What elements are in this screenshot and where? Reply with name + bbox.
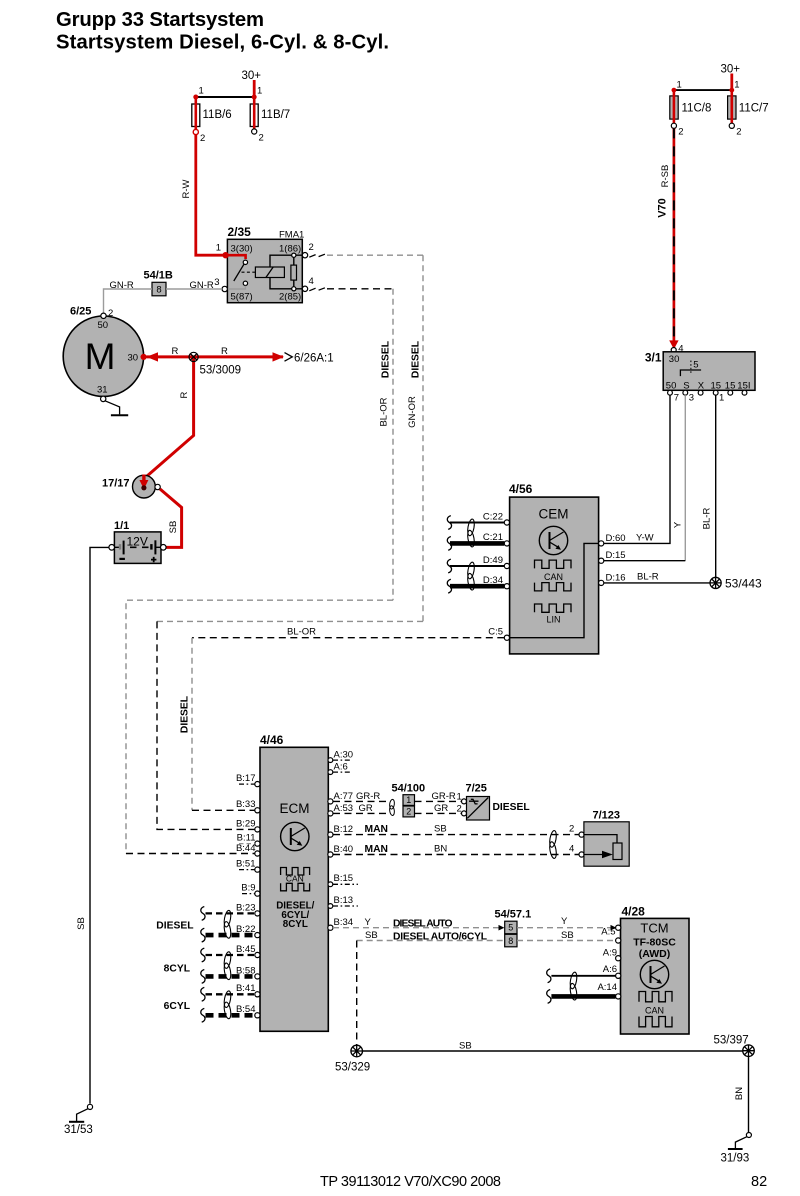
ECM pin B:58: [255, 974, 260, 979]
svg-text:1: 1: [199, 86, 204, 97]
wire CAN-H to D:49: [450, 565, 504, 567]
svg-text:DIESEL AUTO/6CYL: DIESEL AUTO/6CYL: [393, 931, 487, 942]
wire R-SB V70 variant fuse 11C/8 to ignition switch: [673, 128, 676, 342]
wire SB riser to splice 53/329: [356, 941, 358, 1046]
battery pin plus: [161, 545, 167, 551]
TCM pin A:6: [616, 973, 621, 978]
relay pin 3: [222, 286, 227, 291]
pin 2 of fuse 11B/6: [193, 129, 198, 134]
svg-text:2: 2: [259, 133, 264, 144]
ignition switch symbol: [680, 370, 701, 376]
ECM pin B:33: [255, 808, 260, 813]
CEM pin D:60: [599, 541, 604, 546]
TCM transistor symbol: [640, 960, 668, 988]
svg-text:CAN: CAN: [286, 873, 304, 883]
wire horizontal run to ECM B:44: [126, 600, 393, 853]
ECM pin B:23: [255, 911, 260, 916]
svg-text:3: 3: [689, 393, 694, 404]
wire BL-R ignition 15 to splice 53/443: [715, 395, 717, 577]
wire horizontal run to ECM B:29: [157, 620, 423, 622]
wire BN ECM B:40 to 7/123 pin 4 (MAN): [333, 854, 579, 856]
svg-text:3/1: 3/1: [645, 351, 662, 365]
svg-text:B:41: B:41: [236, 983, 256, 994]
svg-text:TCM: TCM: [640, 921, 668, 936]
svg-text:7/123: 7/123: [593, 810, 621, 822]
svg-text:B:29: B:29: [236, 818, 256, 829]
svg-text:CEM: CEM: [539, 507, 569, 522]
svg-text:5: 5: [693, 360, 698, 371]
wire CAN-L to D:34 (thick): [450, 584, 504, 589]
CEM pin C:21: [504, 541, 509, 546]
svg-text:GN-R: GN-R: [190, 280, 214, 291]
svg-text:2: 2: [406, 807, 411, 817]
svg-text:1: 1: [719, 393, 724, 404]
svg-text:1/1: 1/1: [114, 520, 129, 532]
CEM pin C:22: [504, 520, 509, 525]
CEM CAN symbol: [535, 560, 572, 568]
svg-text:31/53: 31/53: [64, 1124, 93, 1136]
svg-text:B:17: B:17: [236, 773, 256, 784]
motor pin 30: [141, 354, 146, 359]
svg-text:DIESEL AUTO: DIESEL AUTO: [393, 919, 453, 930]
svg-text:54/100: 54/100: [392, 783, 426, 795]
svg-text:2: 2: [108, 308, 113, 319]
svg-text:CAN: CAN: [544, 572, 563, 582]
ECM pin A:6: [328, 770, 333, 775]
svg-text:SB: SB: [365, 930, 378, 941]
CEM pin D:34: [504, 584, 509, 589]
relay pin 2: [302, 253, 307, 258]
relay pin 4: [302, 286, 307, 291]
wire BN splice 53/397 to ground 31/93: [748, 1057, 750, 1133]
fuse 11C/7: [728, 96, 736, 119]
svg-text:B:23: B:23: [236, 902, 256, 913]
wire relay pin 2 to GN-OR riser: [309, 254, 325, 257]
svg-text:R: R: [179, 391, 190, 398]
svg-text:8CYL: 8CYL: [164, 964, 190, 975]
TCM pin A:14: [616, 994, 621, 999]
ground 31/93: [746, 1133, 751, 1138]
TCM pin A:9: [616, 956, 621, 961]
fuse 11B/7: [250, 104, 258, 127]
ECM pin A:77: [328, 799, 333, 804]
svg-text:R: R: [172, 346, 179, 357]
svg-text:30: 30: [669, 354, 680, 365]
svg-text:5: 5: [508, 923, 513, 933]
svg-text:D:15: D:15: [606, 550, 626, 561]
svg-text:DIESEL: DIESEL: [180, 696, 191, 733]
wire BL-OR CEM C:5 to ECM B:33: [192, 637, 504, 639]
svg-text:A:14: A:14: [597, 982, 617, 993]
ECM pin B:54: [255, 1013, 260, 1018]
svg-text:DIESEL: DIESEL: [411, 341, 422, 378]
svg-text:R-SB: R-SB: [660, 165, 671, 188]
svg-text:B:12: B:12: [334, 824, 354, 835]
twisted pair symbol A:6/A:14: [569, 972, 578, 990]
svg-text:2(85): 2(85): [279, 292, 301, 303]
wire SB ECM B:12 to 7/123 pin 2 (MAN): [333, 834, 579, 836]
wire CAN-H to TCM A:6: [551, 975, 615, 977]
svg-text:R-W: R-W: [181, 179, 192, 198]
ground at motor: [105, 401, 120, 415]
wire SB 54/57.1 to TCM A:5: [517, 940, 616, 942]
svg-text:6/26A:1: 6/26A:1: [294, 353, 334, 365]
svg-text:D:60: D:60: [606, 533, 626, 544]
svg-text:DIESEL: DIESEL: [381, 341, 392, 378]
svg-text:4/56: 4/56: [509, 482, 533, 496]
junction dot right: [252, 95, 257, 100]
svg-text:B:45: B:45: [236, 944, 256, 955]
svg-text:11B/7: 11B/7: [261, 109, 290, 121]
svg-text:GR: GR: [359, 803, 373, 814]
svg-text:LIN: LIN: [546, 614, 560, 624]
svg-text:17/17: 17/17: [102, 478, 130, 490]
svg-text:1: 1: [734, 80, 739, 91]
TCM CAN symbol: [639, 992, 672, 1002]
svg-text:DIESEL: DIESEL: [156, 920, 193, 931]
ECM pin B:40: [328, 852, 333, 857]
svg-text:B:44: B:44: [236, 843, 256, 854]
wire R motor 30 to 6/26A:1: [147, 355, 284, 358]
svg-text:11C/8: 11C/8: [682, 103, 712, 115]
svg-text:D:16: D:16: [606, 572, 626, 583]
svg-text:CAN: CAN: [645, 1005, 664, 1015]
wire pair 8CYL B:45/B:58: [206, 954, 256, 956]
relay pin 1: [223, 253, 228, 258]
svg-text:SB: SB: [561, 930, 574, 941]
svg-text:SB: SB: [434, 824, 447, 835]
svg-text:50: 50: [666, 380, 677, 391]
CEM LIN symbol: [535, 604, 572, 612]
ignition bottom pins: [668, 390, 673, 395]
svg-text:D:49: D:49: [483, 555, 503, 566]
svg-text:4/46: 4/46: [260, 733, 284, 747]
twisted pair symbol SB/BN: [549, 830, 558, 848]
CEM pin D:16: [599, 580, 604, 585]
svg-text:1: 1: [406, 795, 411, 805]
svg-text:DIESEL: DIESEL: [493, 802, 530, 813]
wire BL-OR riser (DIESEL): [392, 289, 394, 600]
splice 53/397: [743, 1045, 755, 1057]
svg-text:7: 7: [674, 393, 679, 404]
wire pair 6CYL B:41/B:54: [206, 993, 256, 995]
svg-text:6/25: 6/25: [70, 306, 91, 318]
svg-text:3: 3: [214, 277, 219, 288]
ECM pin A:30: [328, 758, 333, 763]
ECM pin B:9: [255, 891, 260, 896]
svg-text:31: 31: [97, 385, 108, 396]
ECM pin B:41: [255, 992, 260, 997]
svg-text:SB: SB: [459, 1040, 472, 1051]
svg-text:2/35: 2/35: [228, 225, 252, 239]
svg-text:GN-OR: GN-OR: [407, 396, 418, 428]
svg-text:30+: 30+: [721, 64, 741, 76]
ECM pin B:22: [255, 933, 260, 938]
svg-text:8CYL: 8CYL: [283, 919, 308, 930]
svg-text:2: 2: [200, 133, 205, 144]
wire GR-R ECM A:77 to 54/100: [333, 800, 388, 802]
svg-text:11C/7: 11C/7: [739, 103, 769, 115]
svg-text:B:13: B:13: [334, 895, 354, 906]
svg-text:B:51: B:51: [236, 859, 256, 870]
svg-text:82: 82: [751, 1174, 767, 1190]
wire CAN-L to TCM A:14 (thick): [551, 994, 615, 999]
splice 53/3009: [189, 352, 198, 361]
ECM transistor symbol: [281, 822, 309, 850]
svg-text:C:5: C:5: [488, 627, 503, 638]
svg-text:11B/6: 11B/6: [203, 109, 232, 121]
relay internal wiring: [270, 255, 302, 289]
svg-text:2: 2: [736, 127, 741, 138]
svg-text:2: 2: [569, 824, 574, 835]
wire Y ECM B:34 to 54/57.1 (DIESEL AUTO): [333, 927, 499, 929]
pin 2 of fuse 11C/8: [671, 123, 676, 128]
svg-text:4/28: 4/28: [622, 905, 646, 919]
svg-text:(AWD): (AWD): [639, 948, 671, 960]
wire fuse rail horizontal right: [674, 89, 732, 91]
svg-text:A:77: A:77: [334, 791, 354, 802]
svg-text:7/25: 7/25: [466, 783, 487, 795]
battery pin minus: [109, 545, 115, 551]
wire BL-R CEM D:16 to splice 53/443: [604, 582, 710, 584]
ignition pin 4: [671, 348, 676, 353]
svg-text:Y: Y: [365, 917, 372, 928]
svg-text:TP 39113012 V70/XC90 2008: TP 39113012 V70/XC90 2008: [320, 1174, 501, 1190]
svg-text:1: 1: [257, 86, 262, 97]
CEM transistor symbol: [539, 526, 567, 554]
svg-text:BN: BN: [434, 844, 447, 855]
svg-text:15I: 15I: [737, 380, 750, 391]
splice 53/443: [710, 577, 721, 588]
splice 53/329: [351, 1045, 363, 1057]
svg-text:1: 1: [216, 243, 221, 254]
twisted pair symbol at 54/100: [389, 799, 395, 809]
relay coil: [255, 267, 284, 278]
wire GR 54/100 to 7/25 pin 2: [415, 812, 462, 814]
svg-text:A:6: A:6: [603, 964, 617, 975]
CEM pin D:15: [599, 558, 604, 563]
svg-text:ECM: ECM: [280, 801, 310, 816]
svg-text:GR-R: GR-R: [356, 791, 380, 802]
svg-text:BL-OR: BL-OR: [379, 397, 390, 426]
svg-text:MAN: MAN: [365, 844, 388, 855]
wire GN-R motor to 54/1B: [104, 289, 153, 316]
ECM pin B:13: [328, 904, 333, 909]
wire GN-OR riser (DIESEL): [422, 255, 424, 621]
svg-text:Startsystem Diesel, 6-Cyl. & 8: Startsystem Diesel, 6-Cyl. & 8-Cyl.: [56, 32, 389, 54]
ECM pin A:53: [328, 811, 333, 816]
svg-text:BN: BN: [734, 1087, 745, 1100]
wire 30+ down to fuse rail: [253, 80, 256, 97]
svg-text:A:6: A:6: [334, 762, 348, 773]
ECM pin B:34: [328, 925, 333, 930]
svg-text:53/329: 53/329: [335, 1062, 370, 1074]
svg-text:1: 1: [677, 80, 682, 91]
motor pin 31: [101, 396, 106, 401]
wire R-W fuse 11B/6 to relay pin 1: [196, 135, 225, 256]
svg-text:12V: 12V: [127, 535, 148, 549]
svg-text:Y-W: Y-W: [636, 533, 654, 544]
ECM pin B:29: [255, 827, 260, 832]
wire fuse rail horizontal: [196, 96, 254, 98]
ECM pin B:12: [328, 832, 333, 837]
ECM pin B:17: [255, 782, 260, 787]
svg-text:BL-R: BL-R: [637, 572, 659, 583]
svg-text:SB: SB: [168, 521, 179, 534]
svg-text:X: X: [698, 380, 705, 391]
svg-text:15: 15: [725, 380, 736, 391]
wire pair DIESEL B:23/B:22: [206, 912, 256, 914]
wire Y 54/57.1 to TCM: [517, 927, 611, 929]
pin 2 of fuse 11C/7: [729, 123, 734, 128]
svg-text:3(30): 3(30): [231, 244, 253, 255]
svg-text:Grupp 33 Startsystem: Grupp 33 Startsystem: [56, 9, 264, 31]
svg-text:B:33: B:33: [236, 799, 256, 810]
svg-text:C:22: C:22: [483, 511, 503, 522]
svg-text:4: 4: [309, 276, 314, 287]
wire CAN-H to C:22: [450, 522, 504, 524]
svg-text:BL-R: BL-R: [702, 508, 713, 530]
svg-text:A:30: A:30: [334, 750, 354, 761]
svg-text:SB: SB: [76, 917, 87, 930]
svg-text:15: 15: [711, 380, 722, 391]
svg-text:8: 8: [508, 936, 513, 946]
svg-text:30+: 30+: [242, 70, 262, 82]
svg-text:30: 30: [128, 353, 139, 364]
svg-text:53/397: 53/397: [714, 1035, 749, 1047]
svg-text:53/3009: 53/3009: [200, 365, 242, 377]
wire GN-R 54/1B to relay pin 3: [166, 288, 222, 290]
svg-text:31/93: 31/93: [721, 1153, 750, 1165]
wire SB to 54/57.1 (DIESEL AUTO/6CYL): [357, 940, 505, 942]
junction dot left: [193, 95, 198, 100]
svg-text:Y: Y: [673, 521, 684, 528]
svg-text:S: S: [683, 380, 689, 391]
ECM CAN symbol: [281, 868, 310, 876]
TCM pin (DIESEL AUTO): [616, 925, 621, 930]
relay internal switch: [227, 255, 245, 259]
ECM pin B:11: [255, 841, 260, 846]
wire SB splice 53/329 to 53/397: [363, 1050, 743, 1052]
twisted pair symbol D:49/D:34: [467, 562, 476, 580]
wire relay pin 4 to BL-OR riser: [309, 288, 325, 291]
svg-text:54/57.1: 54/57.1: [495, 909, 532, 921]
wire 30+ down: [730, 74, 733, 91]
svg-text:2: 2: [309, 242, 314, 253]
svg-text:B:15: B:15: [334, 873, 354, 884]
wire GR-R 54/100 to 7/25 pin 1: [415, 800, 462, 802]
svg-text:A:9: A:9: [603, 948, 617, 959]
svg-text:1(86): 1(86): [279, 244, 301, 255]
ground 31/53: [87, 1104, 92, 1109]
TCM pin A:5: [616, 938, 621, 943]
ECM pin B:51: [255, 867, 260, 872]
ECM pin B:44: [255, 851, 260, 856]
pin 2 of fuse 11B/7: [252, 129, 257, 134]
svg-text:54/1B: 54/1B: [144, 270, 173, 282]
svg-text:B:9: B:9: [241, 883, 255, 894]
fuse 11B/6: [192, 104, 200, 127]
ECM pin B:45: [255, 952, 260, 957]
svg-text:GN-R: GN-R: [110, 280, 134, 291]
svg-text:8: 8: [156, 285, 161, 296]
fuse 11C/8: [670, 96, 678, 119]
svg-text:2: 2: [678, 127, 683, 138]
wire GR ECM A:53 to 54/100: [333, 812, 388, 814]
svg-text:B:40: B:40: [334, 844, 354, 855]
svg-text:6CYL: 6CYL: [164, 1001, 190, 1012]
svg-text:MAN: MAN: [365, 824, 388, 835]
svg-text:M: M: [85, 336, 116, 377]
wire SB 17/17 to battery: [160, 489, 182, 547]
wire Y ignition S to CEM D:15: [684, 395, 686, 561]
wire SB battery minus to ground: [90, 547, 109, 1103]
svg-text:Y: Y: [561, 916, 568, 927]
svg-text:GR: GR: [434, 803, 448, 814]
CEM pin C:5: [504, 635, 509, 640]
svg-text:4: 4: [569, 844, 574, 855]
wire Y-W ignition 50 to CEM D:60: [604, 395, 670, 543]
CEM pin D:49: [504, 563, 509, 568]
svg-text:V70: V70: [657, 198, 669, 218]
svg-text:TF-80SC: TF-80SC: [633, 937, 676, 949]
svg-text:53/443: 53/443: [725, 577, 762, 591]
svg-text:B:34: B:34: [334, 917, 354, 928]
svg-text:A:5: A:5: [601, 927, 615, 938]
svg-text:R: R: [221, 346, 228, 357]
twisted pair symbol C:22/C:21: [467, 519, 476, 537]
svg-text:50: 50: [98, 320, 109, 331]
CEM internal wire D:60 to C:5: [507, 543, 600, 637]
wire CAN-L to C:21 (thick): [450, 541, 504, 546]
relay internal resistor: [293, 255, 295, 289]
svg-text:BL-OR: BL-OR: [287, 627, 316, 638]
svg-text:GR-R: GR-R: [432, 791, 456, 802]
svg-text:A:53: A:53: [334, 803, 354, 814]
ECM pin B:15: [328, 882, 333, 887]
svg-text:5(87): 5(87): [231, 292, 253, 303]
wire R junction down: [147, 357, 194, 477]
